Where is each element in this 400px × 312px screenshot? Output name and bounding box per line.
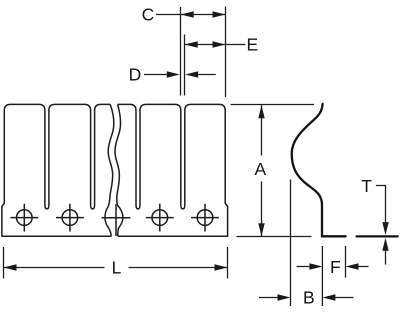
- extension line slot left (for C and D): [180, 7, 182, 96]
- dimension A arrowhead down: [258, 223, 264, 236]
- hole 5 circle: [197, 210, 213, 226]
- dimension T up arrow shaft: [385, 250, 387, 265]
- dimension B shafts: [259, 297, 354, 299]
- hole 1 circle: [17, 210, 33, 226]
- dimension A arrowhead up: [258, 105, 264, 118]
- extension line slot right (for E and D): [184, 35, 186, 96]
- dimension E arrowhead right: [213, 41, 226, 47]
- dimension B arrowhead pointing right: [278, 294, 291, 300]
- hole 5 crosshair: [191, 204, 219, 232]
- extension tick L left: [3, 247, 5, 279]
- dimension C leader and line: [156, 14, 226, 16]
- dimension L arrowhead left: [4, 264, 17, 270]
- svg-text:F: F: [330, 257, 341, 277]
- break line right wavy (bulges to form hole lens): [115, 104, 123, 236]
- hole 2 crosshair: [56, 204, 84, 232]
- dimension F arrowhead pointing left: [346, 263, 359, 269]
- svg-text:T: T: [361, 176, 372, 196]
- svg-text:L: L: [112, 258, 122, 278]
- dimension T leader with corner: [376, 186, 386, 223]
- extension line part right edge (for C and E): [225, 7, 227, 98]
- extension line F right: [345, 246, 347, 278]
- dimension C arrowhead left: [181, 11, 194, 17]
- hole 2 circle: [62, 210, 78, 226]
- hole 1 crosshair: [10, 204, 38, 232]
- extension tick L right: [227, 247, 229, 279]
- dimension L line: [4, 267, 228, 269]
- dimension L arrowhead right: [215, 264, 228, 270]
- side profile S-curve: [292, 104, 346, 237]
- svg-text:C: C: [142, 4, 155, 24]
- dimension D arrowhead pointing left: [185, 71, 198, 77]
- comb front view outline, left portion up to break: [2, 104, 111, 236]
- dimension F arrowhead pointing right: [309, 263, 322, 269]
- extension line B left (bulge): [290, 180, 292, 307]
- dimension D arrowhead pointing right: [167, 71, 180, 77]
- svg-text:B: B: [303, 287, 315, 307]
- extension line B right / F left: [321, 246, 323, 306]
- sheet thickness section line for T: [357, 235, 398, 237]
- dimension T arrowhead down: [382, 222, 388, 235]
- dimension E line: [185, 44, 246, 46]
- dimension E arrowhead left: [185, 41, 198, 47]
- svg-text:D: D: [129, 65, 142, 85]
- hole 4 circle: [152, 210, 168, 226]
- extension line A bottom: [237, 236, 312, 238]
- extension line A top: [231, 104, 315, 106]
- dimension D leader: [144, 74, 216, 76]
- hole 4 crosshair: [146, 204, 174, 232]
- dimension F shafts: [297, 266, 369, 268]
- dimension C arrowhead right: [213, 11, 226, 17]
- dimension B arrowhead pointing left: [322, 294, 335, 300]
- svg-text:A: A: [255, 159, 267, 179]
- comb front view outline, right portion after break: [118, 104, 228, 236]
- dimension A line: [261, 105, 263, 236]
- break line left wavy (bulges to form hole lens): [105, 104, 114, 236]
- hole 3 crosshair (hole shown inside break lens): [102, 204, 131, 236]
- svg-text:E: E: [247, 35, 259, 55]
- dimension T arrowhead up: [382, 238, 388, 251]
